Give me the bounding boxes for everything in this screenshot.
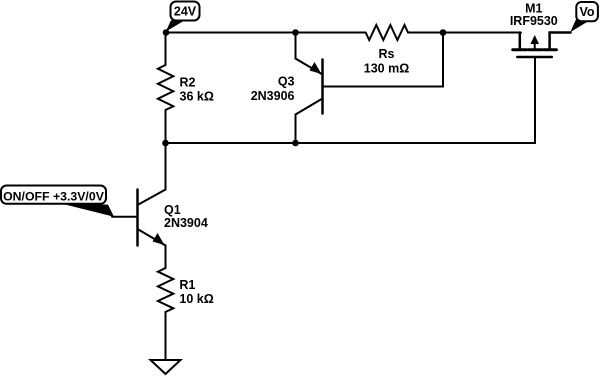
svg-text:2N3904: 2N3904 [164, 216, 208, 230]
svg-text:IRF9530: IRF9530 [510, 14, 558, 28]
svg-text:10 kΩ: 10 kΩ [179, 292, 213, 306]
svg-text:R2: R2 [180, 76, 196, 90]
svg-text:2N3906: 2N3906 [251, 89, 295, 103]
svg-text:24V: 24V [174, 5, 197, 19]
svg-text:Q1: Q1 [164, 203, 181, 217]
svg-text:130 mΩ: 130 mΩ [364, 62, 409, 76]
svg-text:Rs: Rs [379, 47, 395, 61]
svg-text:ON/OFF +3.3V/0V: ON/OFF +3.3V/0V [3, 189, 105, 203]
svg-text:R1: R1 [179, 278, 195, 292]
svg-text:Vo: Vo [579, 5, 594, 19]
svg-text:Q3: Q3 [278, 75, 295, 89]
svg-text:36 kΩ: 36 kΩ [180, 90, 214, 104]
